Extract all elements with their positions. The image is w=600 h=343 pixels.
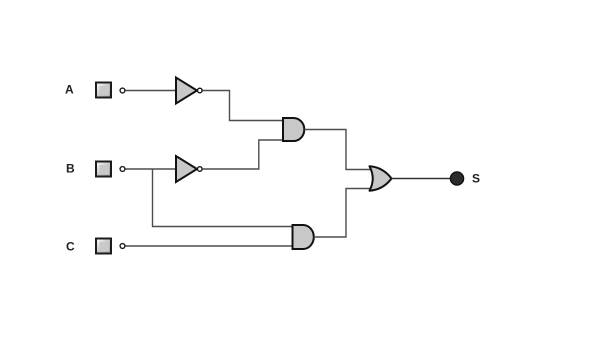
inverter U2 (NOT gate on B) — [176, 156, 202, 182]
OR gate U5 — [370, 166, 392, 190]
wire B terminal to inverter U2 — [126, 168, 177, 170]
wire C terminal to AND U4 bottom input — [126, 245, 293, 247]
AND gate U4 — [293, 225, 314, 249]
svg-text:A: A — [65, 83, 74, 97]
output node S (lamp) — [450, 172, 463, 185]
wire A terminal to inverter U1 — [126, 90, 177, 92]
input button B — [95, 161, 112, 178]
input button C — [95, 238, 112, 255]
wire U4 output to OR U5 bottom input — [314, 189, 376, 238]
svg-text:C: C — [66, 240, 75, 254]
wire U3 output to OR U5 top input — [305, 130, 377, 170]
wire U2 output to AND U3 bottom input — [203, 140, 284, 169]
wire U5 output to node S — [392, 178, 452, 180]
wire U1 output to AND U3 top input — [203, 91, 284, 121]
svg-text:S: S — [472, 172, 480, 186]
AND gate U3 — [283, 118, 304, 141]
input terminal A — [120, 88, 125, 93]
inverter U1 (NOT gate on A) — [176, 78, 202, 104]
svg-text:B: B — [66, 162, 75, 176]
input terminal C — [120, 244, 125, 249]
input terminal B — [120, 167, 125, 172]
wire B branch to AND U4 top input — [153, 169, 293, 227]
input button A — [95, 82, 112, 99]
